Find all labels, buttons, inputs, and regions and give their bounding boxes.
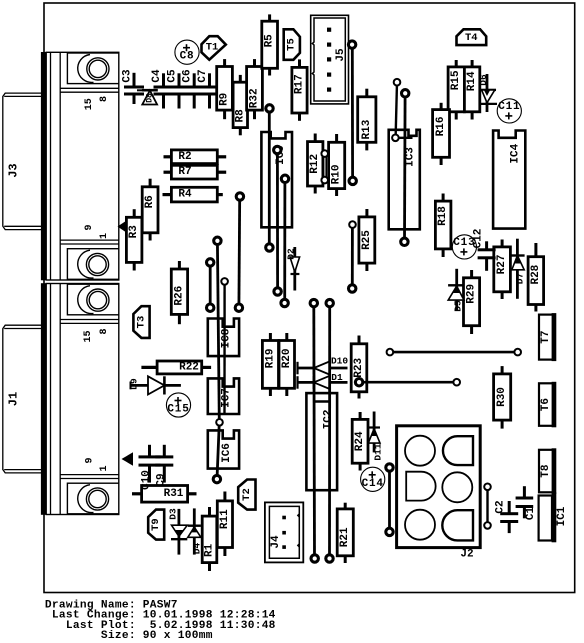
svg-text:R29: R29 bbox=[466, 284, 478, 304]
transistor T4 bbox=[457, 29, 487, 45]
junction W13 top bbox=[484, 484, 491, 491]
svg-text:C5: C5 bbox=[166, 69, 178, 83]
connector J2 bbox=[397, 426, 481, 561]
transistor T7 bbox=[539, 313, 556, 361]
capacitor C12 bbox=[473, 229, 496, 271]
wire W5a bbox=[268, 108, 271, 247]
junction W3 top bbox=[236, 193, 243, 200]
svg-text:C12: C12 bbox=[473, 229, 485, 249]
svg-text:R11: R11 bbox=[219, 509, 231, 529]
junction W12 top bbox=[386, 464, 393, 471]
svg-text:R21: R21 bbox=[339, 527, 351, 547]
svg-text:R16: R16 bbox=[435, 116, 447, 136]
svg-text:R22: R22 bbox=[179, 361, 199, 373]
svg-text:IC6: IC6 bbox=[221, 443, 233, 463]
junction W5c top bbox=[281, 175, 288, 182]
connector J5 bbox=[311, 15, 349, 104]
junction W5a bottom bbox=[266, 244, 273, 251]
junction W5a top bbox=[266, 105, 273, 112]
svg-text:C1: C1 bbox=[525, 507, 537, 521]
resistor R8 bbox=[233, 75, 247, 135]
junction W1 top bbox=[207, 259, 214, 266]
IC2 key bar bbox=[314, 400, 330, 403]
svg-text:D7: D7 bbox=[514, 273, 525, 285]
svg-text:8: 8 bbox=[99, 96, 110, 102]
resistor R29 bbox=[464, 270, 480, 334]
wire W14 bbox=[323, 154, 325, 181]
resistor R28 bbox=[528, 243, 544, 312]
svg-text:IC7: IC7 bbox=[221, 388, 233, 408]
IC IC7 bbox=[208, 378, 239, 414]
svg-text:C8: C8 bbox=[180, 51, 195, 63]
svg-text:T9: T9 bbox=[150, 518, 162, 531]
capacitor C5 bbox=[166, 69, 189, 108]
resistor R20 bbox=[279, 333, 295, 396]
resistor R24 bbox=[352, 412, 368, 471]
svg-text:R12: R12 bbox=[309, 154, 321, 174]
svg-text:D1: D1 bbox=[331, 372, 343, 383]
capacitor C4 bbox=[151, 69, 174, 108]
pin-1 arrow near J3 bbox=[118, 219, 130, 234]
wire W3 bbox=[237, 197, 241, 308]
diode D6 bbox=[478, 74, 497, 112]
junction W10 left bbox=[387, 349, 394, 356]
svg-text:J3: J3 bbox=[7, 163, 21, 177]
svg-text:T7: T7 bbox=[540, 330, 552, 343]
svg-text:D6: D6 bbox=[478, 74, 489, 86]
svg-text:D3: D3 bbox=[167, 508, 178, 520]
svg-text:R13: R13 bbox=[361, 119, 373, 139]
resistor R11 bbox=[217, 492, 232, 557]
svg-text:9: 9 bbox=[84, 457, 95, 463]
svg-text:R18: R18 bbox=[437, 206, 449, 226]
junction W8a top bbox=[394, 79, 401, 86]
svg-text:8: 8 bbox=[99, 328, 110, 334]
wire W9b bbox=[328, 303, 331, 558]
diode D9 bbox=[129, 376, 181, 394]
junction W2 top bbox=[214, 237, 221, 244]
junction W12 bottom bbox=[386, 528, 393, 535]
svg-text:R2: R2 bbox=[178, 151, 191, 163]
IC IC1 bbox=[539, 492, 568, 542]
svg-text:D11: D11 bbox=[373, 443, 384, 460]
svg-text:R1: R1 bbox=[204, 543, 216, 557]
junction W2 mid bbox=[216, 419, 223, 426]
diode D11 bbox=[368, 412, 383, 461]
svg-text:C3: C3 bbox=[121, 69, 133, 83]
svg-text:R9: R9 bbox=[219, 93, 231, 106]
diode D2 bbox=[286, 247, 300, 291]
junction W8a bottom bbox=[392, 135, 399, 142]
svg-text:R19: R19 bbox=[264, 348, 276, 368]
junction W9a top bbox=[310, 299, 317, 306]
transistor T9 bbox=[148, 510, 164, 540]
svg-text:R4: R4 bbox=[178, 189, 192, 201]
junction W8b bottom bbox=[401, 238, 408, 245]
junction W5c bottom bbox=[281, 299, 288, 306]
resistor R10 bbox=[329, 134, 345, 196]
svg-text:C14: C14 bbox=[362, 478, 384, 490]
svg-text:D9: D9 bbox=[129, 378, 140, 390]
resistor R9 bbox=[217, 59, 233, 119]
resistor R32 bbox=[247, 59, 263, 119]
diode D10 bbox=[297, 355, 349, 374]
resistor R12 bbox=[308, 134, 323, 194]
svg-text:C4: C4 bbox=[151, 69, 163, 83]
svg-text:R5: R5 bbox=[264, 34, 276, 48]
svg-text:C15: C15 bbox=[167, 404, 189, 416]
resistor R5 bbox=[262, 14, 278, 75]
wire W1 bbox=[209, 262, 212, 307]
svg-text:15: 15 bbox=[83, 330, 94, 342]
capacitor C7 bbox=[197, 69, 220, 108]
junction W14 top bbox=[321, 150, 328, 157]
IC IC4 bbox=[493, 131, 525, 229]
svg-text:15: 15 bbox=[84, 98, 95, 110]
svg-text:R14: R14 bbox=[466, 71, 478, 91]
svg-text:D5: D5 bbox=[452, 300, 463, 312]
svg-text:IC4: IC4 bbox=[509, 143, 521, 163]
svg-text:T4: T4 bbox=[465, 32, 478, 44]
svg-text:R10: R10 bbox=[331, 164, 343, 184]
svg-text:1: 1 bbox=[99, 465, 110, 471]
resistor R21 bbox=[337, 503, 353, 563]
junction W3 bottom bbox=[235, 304, 242, 311]
transistor T3 bbox=[133, 306, 149, 338]
resistor R1 bbox=[202, 507, 217, 571]
svg-text:1: 1 bbox=[99, 233, 110, 239]
svg-text:R7: R7 bbox=[178, 166, 191, 178]
wire W4 bbox=[223, 281, 226, 413]
svg-text:R26: R26 bbox=[173, 286, 185, 306]
svg-text:R25: R25 bbox=[361, 230, 373, 250]
connector J4 bbox=[265, 502, 303, 562]
resistor R31 bbox=[132, 486, 197, 503]
svg-text:D10: D10 bbox=[331, 355, 348, 366]
resistor R22 bbox=[141, 361, 211, 374]
diode D1 bbox=[297, 372, 348, 389]
junction W9a bottom bbox=[311, 555, 318, 562]
svg-text:C9: C9 bbox=[155, 473, 167, 486]
capacitor C8 bbox=[175, 40, 199, 64]
wire W12 bbox=[388, 468, 391, 532]
diode D5 bbox=[448, 269, 464, 312]
wire W6 bbox=[351, 45, 354, 181]
wire W9a bbox=[312, 303, 316, 558]
junction W5b top bbox=[274, 146, 281, 153]
svg-text:R32: R32 bbox=[249, 88, 261, 108]
resistor R3 bbox=[126, 209, 141, 270]
resistor R26 bbox=[171, 261, 187, 324]
resistor R7 bbox=[164, 165, 227, 179]
junction W5b bottom bbox=[274, 288, 281, 295]
resistor R14 bbox=[464, 60, 479, 120]
svg-text:R27: R27 bbox=[496, 254, 508, 274]
resistor R2 bbox=[164, 150, 227, 164]
svg-text:R8: R8 bbox=[234, 109, 246, 123]
IC IC8 bbox=[208, 319, 239, 357]
svg-text:R20: R20 bbox=[281, 348, 293, 368]
svg-text:9: 9 bbox=[84, 224, 95, 230]
svg-text:IC3: IC3 bbox=[405, 147, 417, 167]
svg-text:T6: T6 bbox=[540, 398, 552, 411]
capacitor C10 bbox=[139, 445, 161, 490]
wire W13 bbox=[486, 487, 488, 526]
IC IC9 bbox=[261, 132, 292, 227]
svg-text:T2: T2 bbox=[241, 488, 253, 501]
wire W8a bbox=[396, 82, 397, 138]
resistor R16 bbox=[433, 103, 450, 165]
junction W11 right bbox=[453, 379, 460, 386]
diode D7 bbox=[511, 239, 525, 299]
pin-1 arrow near J1 bbox=[122, 452, 134, 465]
transistor T1 bbox=[202, 36, 226, 60]
wire W8b bbox=[403, 93, 406, 242]
junction W2 bottom bbox=[213, 475, 220, 482]
junction W13 bottom bbox=[484, 522, 491, 529]
resistor R13 bbox=[358, 89, 376, 151]
capacitor C1 bbox=[516, 486, 537, 520]
svg-text:R3: R3 bbox=[128, 225, 140, 239]
transistor T5 bbox=[284, 29, 300, 60]
svg-text:C10: C10 bbox=[141, 470, 153, 490]
svg-text:Size: 90 x 100mm: Size: 90 x 100mm bbox=[45, 630, 213, 642]
resistor R4 bbox=[163, 187, 223, 202]
svg-text:D8: D8 bbox=[145, 93, 154, 103]
junction W9b top bbox=[326, 299, 333, 306]
transistor T8 bbox=[539, 448, 556, 494]
svg-text:T5: T5 bbox=[286, 38, 298, 51]
IC IC2 bbox=[306, 393, 337, 490]
svg-text:J5: J5 bbox=[335, 48, 347, 62]
junction W11 left bbox=[355, 379, 362, 386]
capacitor C2 bbox=[495, 500, 519, 533]
svg-text:R17: R17 bbox=[294, 74, 306, 94]
svg-text:R15: R15 bbox=[450, 70, 462, 90]
svg-text:IC1: IC1 bbox=[556, 506, 568, 526]
svg-text:T8: T8 bbox=[540, 464, 552, 478]
IC IC6 bbox=[208, 430, 239, 468]
junction W1 bottom bbox=[207, 304, 214, 311]
junction W7 bottom bbox=[349, 285, 356, 292]
svg-text:J4: J4 bbox=[270, 535, 282, 549]
diode D8 bbox=[137, 90, 158, 104]
junction W10 right bbox=[514, 349, 521, 356]
diode D3 bbox=[167, 508, 187, 555]
junction W6 top bbox=[348, 41, 355, 48]
wire W5b bbox=[276, 150, 279, 292]
svg-text:IC8: IC8 bbox=[221, 328, 233, 348]
resistor R6 bbox=[142, 179, 158, 241]
svg-text:R31: R31 bbox=[164, 488, 184, 500]
transistor T2 bbox=[238, 480, 255, 510]
svg-text:R28: R28 bbox=[530, 264, 542, 284]
junction W4 top bbox=[221, 278, 228, 285]
junction W14 bottom bbox=[321, 177, 328, 184]
resistor R17 bbox=[292, 59, 307, 120]
svg-text:J1: J1 bbox=[7, 392, 21, 406]
resistor R18 bbox=[435, 194, 451, 258]
svg-text:T1: T1 bbox=[206, 42, 219, 54]
transistor T6 bbox=[539, 382, 556, 428]
wire W11 bbox=[359, 381, 457, 384]
title block text bbox=[45, 600, 276, 642]
capacitor C11 bbox=[497, 99, 521, 123]
resistor R25 bbox=[359, 209, 375, 271]
svg-text:C2: C2 bbox=[495, 500, 507, 513]
wire W10 bbox=[390, 351, 518, 354]
svg-text:R23: R23 bbox=[353, 358, 365, 378]
wire W7 bbox=[351, 225, 354, 289]
junction W6 bottom bbox=[349, 177, 356, 184]
connector J3 bbox=[3, 52, 119, 280]
svg-text:C6: C6 bbox=[182, 69, 194, 82]
resistor R15 bbox=[448, 60, 464, 120]
junction W7 top bbox=[349, 221, 356, 228]
resistor R23 bbox=[351, 336, 367, 399]
resistor R27 bbox=[494, 240, 511, 300]
svg-text:R24: R24 bbox=[354, 431, 366, 451]
resistor R19 bbox=[262, 333, 278, 396]
capacitor C6 bbox=[182, 69, 205, 108]
resistor R30 bbox=[494, 366, 511, 429]
capacitor C15 bbox=[166, 393, 190, 417]
capacitor C3 bbox=[121, 69, 144, 104]
svg-text:J2: J2 bbox=[460, 548, 473, 560]
svg-text:C11: C11 bbox=[498, 101, 520, 113]
svg-text:T3: T3 bbox=[136, 316, 148, 329]
wire W5c bbox=[283, 179, 286, 303]
svg-text:R30: R30 bbox=[496, 387, 508, 407]
IC IC3 bbox=[389, 130, 420, 230]
connector J1 bbox=[3, 283, 119, 515]
capacitor C13 bbox=[452, 235, 476, 259]
svg-text:C7: C7 bbox=[197, 69, 209, 82]
svg-text:D2: D2 bbox=[286, 248, 297, 260]
junction W8b top bbox=[402, 90, 409, 97]
svg-text:D4: D4 bbox=[192, 543, 203, 555]
capacitor C9 bbox=[155, 445, 173, 487]
junction W9b bottom bbox=[326, 555, 333, 562]
svg-text:R6: R6 bbox=[144, 195, 156, 208]
wire W2 bbox=[217, 241, 219, 479]
diode D4 bbox=[188, 508, 203, 554]
capacitor C14 bbox=[361, 467, 385, 491]
